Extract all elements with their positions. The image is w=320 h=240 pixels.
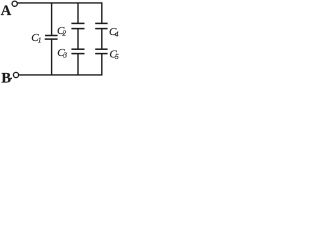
svg-text:1: 1	[38, 36, 42, 45]
capacitor C2 value label	[57, 25, 66, 38]
wire branch 2 middle segment	[77, 29, 79, 49]
wire branch 2 upper segment	[77, 3, 79, 23]
svg-text:A: A	[1, 3, 12, 19]
period after B	[10, 78, 12, 80]
capacitor C3 value label	[57, 47, 67, 60]
svg-text:3: 3	[62, 51, 67, 60]
capacitor C1 value label	[31, 32, 41, 44]
wire branch 1 upper segment	[51, 3, 53, 36]
wire top rail A to top-right corner	[17, 2, 102, 4]
wire bottom rail B to bottom-right corner	[19, 74, 103, 76]
capacitor C2 plates	[71, 23, 84, 28]
svg-text:B: B	[1, 71, 11, 87]
capacitor C1 plates	[45, 36, 58, 40]
capacitor C4 value label	[109, 26, 119, 38]
wire branch 3 lower segment	[101, 54, 103, 75]
capacitor C4 plates	[95, 23, 107, 28]
svg-text:5: 5	[115, 52, 119, 61]
terminal B circle	[13, 72, 18, 77]
wire branch 3 upper segment	[101, 3, 103, 23]
svg-text:4: 4	[115, 30, 119, 39]
wire branch 2 lower segment	[77, 54, 79, 75]
terminal A circle	[12, 1, 17, 6]
wire branch 1 lower segment	[51, 39, 53, 75]
capacitor C5 value label	[109, 49, 119, 61]
svg-text:2: 2	[62, 29, 66, 38]
wire branch 3 middle segment	[101, 29, 103, 49]
capacitor C5 plates	[95, 49, 107, 53]
capacitor C3 plates	[71, 49, 84, 53]
